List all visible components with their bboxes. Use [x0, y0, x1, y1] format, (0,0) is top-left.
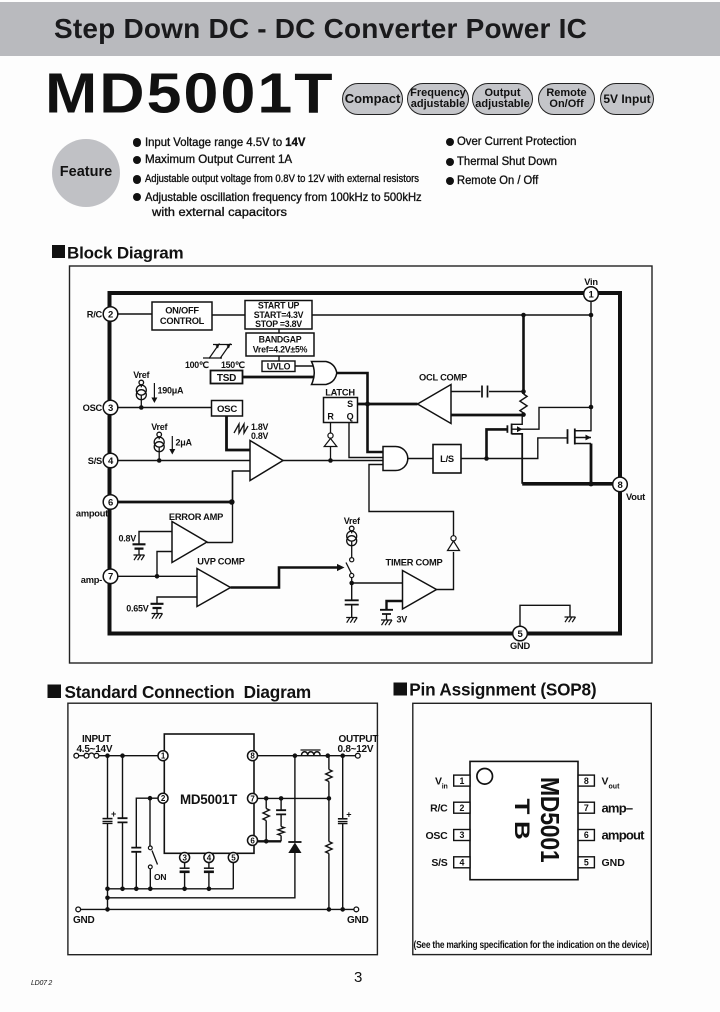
wire: latch S to OCL comparator output (thick)	[358, 403, 418, 406]
svg-text:BANDGAP: BANDGAP	[259, 335, 302, 345]
svg-text:ERROR AMP: ERROR AMP	[169, 512, 223, 522]
arrow: 190uA flow	[153, 383, 155, 399]
gate: AND (drive logic)	[383, 447, 408, 471]
resistor: current sense	[520, 394, 527, 413]
pin 5	[228, 853, 238, 863]
wire: pin7 amp- line	[118, 575, 197, 577]
capacitor C4 (OSC)	[184, 862, 186, 868]
ground (timer cap)	[346, 618, 357, 623]
pin 6 lead box	[578, 830, 594, 841]
wire: pin2 R/C branch	[136, 798, 158, 847]
node: Vin rail junction	[589, 313, 594, 318]
resistor R2 (feedback lower)	[328, 798, 330, 841]
svg-text:2: 2	[108, 309, 113, 320]
section heading: Pin Assignment (SOP8)	[394, 680, 597, 700]
svg-text:S/S: S/S	[88, 456, 102, 466]
wire: pin7 feedback line	[258, 797, 329, 799]
wire: M2 drain to switch node (thick)	[590, 444, 593, 484]
node: OSC line junction	[139, 405, 144, 410]
GND terminal left	[76, 907, 81, 912]
block: UVLO	[262, 361, 295, 372]
svg-text:+: +	[111, 809, 116, 819]
reference 0.8V (capacitor symbol)	[133, 544, 146, 548]
capacitor C1 (input electrolytic)	[107, 756, 109, 819]
block: latch (S R Q)	[324, 398, 358, 423]
block: BANDGAP	[246, 333, 314, 356]
node: S/S line junction	[157, 458, 162, 463]
node: Vin/M1-source junction	[589, 405, 594, 410]
svg-text:CONTROL: CONTROL	[160, 316, 205, 326]
wire: OSC block to PWM comparator (thick)	[227, 416, 251, 450]
svg-text:(See the marking specification: (See the marking specification for the i…	[414, 940, 650, 951]
pin 1	[158, 751, 168, 761]
svg-text:2: 2	[459, 803, 464, 813]
svg-text:0.8V: 0.8V	[118, 534, 136, 544]
wire: error amp inv input to pin7 line	[157, 552, 172, 577]
reference 3V (capacitor symbol)	[380, 610, 393, 614]
block diagram outer border	[70, 266, 653, 663]
svg-text:MD5001T: MD5001T	[180, 791, 238, 807]
svg-text:8: 8	[584, 776, 589, 786]
reference 0.65V (capacitor symbol)	[151, 604, 164, 608]
diode D1 (freewheel)	[294, 756, 296, 842]
wire: PWM comparator output to AND gate	[283, 460, 383, 462]
ground (3V ref)	[381, 620, 392, 625]
svg-text:Vout: Vout	[626, 492, 645, 502]
svg-text:Q: Q	[347, 412, 354, 422]
pin 2 lead box	[454, 802, 470, 813]
svg-text:Standard Connection Diagram: Standard Connection Diagram	[65, 682, 312, 702]
gate: OR U-or (UVLO/TSD)	[312, 362, 337, 385]
switch SW (remote on/off)	[149, 798, 151, 846]
svg-text:0.8~12V: 0.8~12V	[338, 744, 374, 755]
svg-text:ON: ON	[154, 872, 166, 882]
wire: timer ref input (thick)	[387, 601, 403, 610]
pin assignment outer border	[413, 703, 652, 954]
wire: error amp output up to comparator	[207, 471, 233, 543]
svg-text:8: 8	[617, 480, 622, 491]
ground (IC GND)	[565, 617, 576, 622]
pin 5	[513, 626, 528, 641]
svg-text:Vin: Vin	[584, 277, 598, 287]
pin 7 lead box	[578, 802, 594, 813]
wire: pin6 ampout line (thick)	[118, 501, 232, 504]
svg-text:GND: GND	[73, 915, 95, 926]
IC box MD5001T	[164, 734, 254, 853]
pin 2	[103, 307, 118, 322]
op-amp: OCL comparator (points left)	[418, 385, 452, 424]
resistor R1 (feedback upper)	[328, 756, 330, 770]
pin1 index marker circle	[477, 769, 493, 785]
svg-text:6: 6	[584, 830, 589, 840]
inverter on timer output	[448, 541, 460, 551]
svg-text:2μA: 2μA	[176, 438, 193, 448]
svg-text:Vout: Vout	[602, 775, 621, 790]
capacitor C7 (output electrolytic)	[342, 756, 344, 819]
current source 2uA (Vref)	[154, 432, 164, 452]
transistor M1 (PMOS pass)	[507, 407, 591, 483]
arrow: 2uA flow	[171, 436, 173, 450]
wire: 190uA source to OSC line	[140, 395, 142, 408]
section heading: Block Diagram	[52, 244, 184, 263]
pin 1	[584, 287, 599, 302]
svg-text:6: 6	[108, 497, 113, 508]
svg-text:GND: GND	[510, 641, 530, 651]
wire: OR output to AND gate (down x=367.5)	[337, 373, 383, 452]
svg-text:0.65V: 0.65V	[126, 604, 149, 614]
wire: START UP to Vin rail	[312, 314, 591, 316]
section heading: Standard Connection Diagram	[48, 682, 312, 702]
block: TSD	[211, 371, 243, 385]
block: START UP	[245, 301, 312, 330]
pin 6	[248, 835, 258, 845]
svg-text:0.8V: 0.8V	[251, 431, 268, 441]
op-amp: PWM comparator	[250, 441, 283, 481]
input terminal + connector	[74, 753, 99, 758]
node: gate drive junction	[484, 456, 489, 461]
connection diagram outer border	[68, 703, 378, 955]
IC package (SOP8)	[470, 761, 578, 879]
svg-text:3: 3	[108, 403, 113, 414]
current source 190uA (Vref)	[136, 380, 146, 400]
ground (0.8V ref)	[134, 555, 145, 560]
pin 8 lead box	[578, 775, 594, 786]
svg-text:150℃: 150℃	[221, 360, 245, 370]
capacitor C2 (input ceramic)	[122, 756, 124, 819]
svg-text:START UP: START UP	[258, 301, 300, 311]
wire: ground bus 2 (diode return)	[108, 853, 295, 898]
wire: pin4 S/S line to PWM comparator	[118, 460, 250, 462]
pin 5 lead box	[578, 857, 594, 868]
svg-text:Vref: Vref	[151, 422, 168, 432]
pin 4	[103, 453, 118, 468]
svg-text:amp-: amp-	[81, 575, 102, 585]
svg-text:L/S: L/S	[440, 454, 454, 464]
node: switch node junction	[588, 481, 593, 486]
wire: M1 gate drive (thick)	[487, 429, 508, 458]
svg-text:100℃: 100℃	[185, 360, 209, 370]
svg-text:LD07 2: LD07 2	[31, 980, 52, 987]
wire: Vin vertical rail	[575, 302, 591, 431]
wire: AND gate to L/S	[408, 458, 433, 460]
svg-text:UVLO: UVLO	[267, 362, 291, 372]
node: sense branch top	[521, 313, 526, 318]
wire: UVLO to OR gate	[295, 365, 314, 367]
svg-text:Vref: Vref	[344, 516, 361, 526]
wire: ON/OFF CONTROL to START UP	[212, 314, 245, 316]
current source (timer Vref)	[347, 526, 357, 546]
wire: switch node to pin8 Vout (thick)	[522, 482, 617, 486]
pin 3	[180, 853, 190, 863]
op-amp: UVP comparator	[197, 569, 231, 607]
IC boundary box (thick)	[110, 293, 621, 634]
wire: UVP output to timer switch (thick, arrow)	[231, 568, 338, 588]
switch (timer reset)	[351, 541, 353, 558]
svg-text:3V: 3V	[397, 615, 408, 625]
sawtooth waveform symbol	[234, 424, 248, 433]
node: sense bottom junction	[521, 412, 526, 417]
svg-text:R/C: R/C	[87, 310, 103, 320]
wire: 2uA source to S/S line	[158, 447, 160, 461]
svg-text:3: 3	[354, 969, 362, 986]
svg-text:GND: GND	[347, 915, 369, 926]
svg-text:4: 4	[459, 858, 464, 868]
wire: error amp input to PWM comparator	[233, 471, 251, 502]
svg-text:OSC: OSC	[217, 404, 237, 415]
GND terminal right	[354, 907, 359, 912]
wire: OCL bottom input (thick)	[451, 414, 524, 417]
node: ampout junction	[229, 499, 235, 505]
op-amp: timer comparator	[403, 571, 437, 610]
wire: pin5 GND branch	[520, 605, 570, 626]
capacitor C5 (S/S)	[208, 862, 210, 868]
svg-text:ampout: ampout	[602, 828, 646, 843]
svg-text:STOP =3.8V: STOP =3.8V	[255, 319, 302, 329]
wire: pin3 OSC line	[118, 407, 212, 409]
pin 7	[248, 793, 258, 803]
svg-text:UVP COMP: UVP COMP	[197, 557, 244, 567]
svg-text:GND: GND	[602, 857, 626, 869]
wire: latch Q to AND gate	[349, 423, 383, 458]
svg-text:R: R	[327, 412, 334, 422]
svg-text:S: S	[347, 399, 353, 409]
svg-text:TSD: TSD	[217, 373, 236, 384]
svg-text:Block Diagram: Block Diagram	[67, 244, 184, 263]
block: OSC	[212, 401, 243, 417]
wire: L/S output to gates	[461, 438, 568, 459]
pin 4	[204, 853, 214, 863]
wire: pin5 to ground bus	[232, 862, 234, 889]
svg-text:OCL COMP: OCL COMP	[419, 373, 467, 383]
pin 1 lead box	[454, 775, 470, 786]
svg-text:3: 3	[459, 830, 464, 840]
svg-text:7: 7	[108, 572, 113, 583]
wire: main ground bus	[81, 908, 355, 910]
wire: input rail	[99, 755, 158, 757]
resistor R3 (comp)	[265, 798, 267, 808]
output terminal	[355, 753, 360, 758]
ground (0.65V ref)	[152, 614, 163, 619]
svg-text:R/C: R/C	[430, 803, 448, 815]
svg-text:Pin Assignment (SOP8): Pin Assignment (SOP8)	[409, 680, 596, 700]
wire: UVP ref input	[157, 597, 197, 604]
wire: timer node to TIMER COMP	[352, 582, 403, 584]
wire: BANDGAP to UVLO	[278, 356, 280, 361]
capacitor (OCL filter)	[482, 386, 488, 398]
svg-text:Vin: Vin	[435, 775, 448, 790]
block: ON/OFF CONTROL U-ctl	[152, 302, 212, 330]
op-amp: error amp	[172, 522, 207, 563]
svg-text:T B: T B	[510, 799, 534, 840]
svg-text:5: 5	[584, 858, 589, 868]
svg-text:OSC: OSC	[425, 830, 448, 842]
wire: ground bus 1	[108, 888, 234, 890]
capacitor: timer	[351, 583, 353, 600]
pin 4 lead box	[454, 857, 470, 868]
wire: timer comp output to inverter	[437, 552, 454, 590]
node: timer cap node	[349, 581, 354, 586]
svg-text:ON/OFF: ON/OFF	[165, 306, 199, 316]
wire: Vin sense branch (thick vertical)	[522, 315, 525, 394]
svg-text:LATCH: LATCH	[325, 388, 355, 398]
wire: pin6 compensation line (thick)	[258, 840, 282, 842]
node: comparator output / R-path junction	[328, 458, 333, 463]
pin 3	[103, 400, 118, 415]
svg-text:1: 1	[459, 776, 464, 786]
node: OR output / latch S junction	[365, 402, 370, 407]
inverter on latch R input	[330, 423, 332, 434]
wire: TSD to OR gate (thick)	[243, 376, 315, 379]
svg-text:ampout: ampout	[76, 509, 108, 519]
transistor M2 (sync/driver)	[568, 429, 592, 445]
wire: START UP to BANDGAP	[278, 329, 280, 333]
svg-text:OSC: OSC	[83, 403, 103, 413]
svg-text:MD5001: MD5001	[535, 777, 565, 863]
wire+capacitor: OCL top input	[451, 391, 524, 393]
svg-text:TIMER COMP: TIMER COMP	[386, 558, 443, 568]
node: sense/cap junction	[521, 389, 526, 394]
svg-text:S/S: S/S	[431, 857, 447, 869]
wire: pin8 to output	[258, 755, 356, 757]
pin 6	[103, 495, 118, 510]
pin 2	[158, 793, 168, 803]
inductor L1	[302, 752, 321, 755]
thermal hysteresis symbol (TSD trip)	[203, 344, 232, 359]
pin 8	[613, 477, 628, 492]
pin 3 lead box	[454, 830, 470, 841]
svg-text:amp–: amp–	[602, 800, 633, 815]
capacitor C6 + resistor R4 (comp series)	[280, 798, 282, 810]
block: L/S level shifter	[433, 445, 461, 474]
svg-text:Vref=4.2V±5%: Vref=4.2V±5%	[253, 345, 308, 355]
svg-text:7: 7	[584, 803, 589, 813]
wire: pin2 to ON/OFF CONTROL	[118, 313, 152, 315]
pin 8	[248, 751, 258, 761]
wire: timer feedback into AND gate	[369, 465, 454, 536]
svg-text:Vref: Vref	[133, 370, 150, 380]
capacitor C3 (R/C timing)	[131, 848, 141, 852]
pin 7	[103, 569, 118, 584]
svg-text:190μA: 190μA	[158, 386, 185, 396]
node: pin7 line junction	[155, 574, 160, 579]
wire: error amp ref input	[139, 532, 172, 545]
